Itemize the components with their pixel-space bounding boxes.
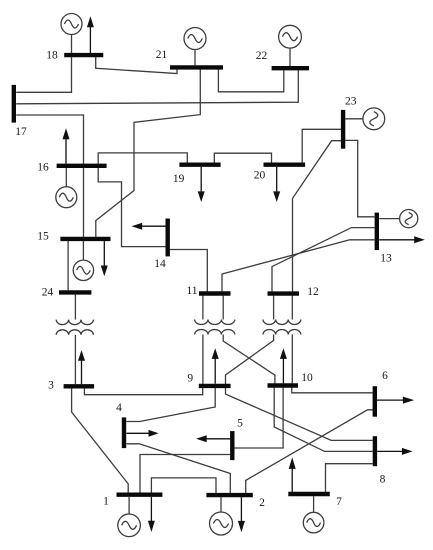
svg-text:4: 4	[116, 402, 122, 414]
svg-text:12: 12	[307, 286, 319, 298]
svg-text:3: 3	[48, 379, 54, 391]
svg-text:13: 13	[380, 253, 392, 265]
svg-text:15: 15	[37, 230, 49, 242]
svg-text:8: 8	[380, 474, 386, 486]
svg-text:21: 21	[156, 49, 168, 61]
svg-text:1: 1	[103, 496, 109, 508]
svg-text:17: 17	[15, 126, 27, 138]
svg-text:2: 2	[259, 497, 265, 509]
svg-text:18: 18	[46, 50, 58, 62]
svg-text:19: 19	[173, 173, 185, 185]
svg-text:16: 16	[37, 162, 49, 174]
svg-text:6: 6	[382, 370, 388, 382]
svg-text:10: 10	[301, 372, 313, 384]
svg-text:24: 24	[42, 286, 54, 298]
svg-text:22: 22	[256, 50, 268, 62]
svg-text:23: 23	[345, 96, 357, 108]
svg-text:5: 5	[237, 418, 243, 430]
svg-text:20: 20	[254, 170, 266, 182]
svg-text:9: 9	[187, 373, 193, 385]
svg-text:11: 11	[186, 285, 197, 297]
svg-text:7: 7	[336, 496, 342, 508]
svg-text:14: 14	[154, 258, 166, 270]
